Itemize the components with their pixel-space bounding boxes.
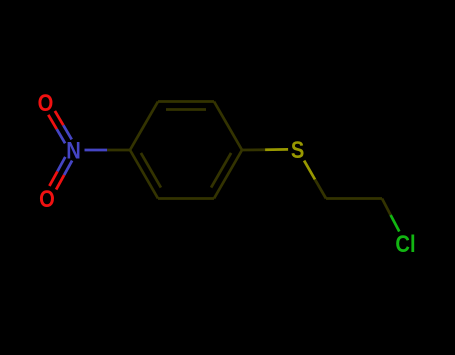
double bond N-O1 line1 (half A): [63, 125, 71, 139]
double bond N-O2 line2 (half A): [64, 161, 72, 176]
svg-text:S: S: [291, 136, 304, 163]
ring inner double line BL-L: [141, 153, 161, 188]
double bond N-O2 line1 (half A): [57, 157, 65, 172]
bond S-C1 (half B): [315, 180, 326, 199]
ring edge L-TL: [130, 102, 158, 151]
double bond N-O1 line2 (half A): [57, 129, 65, 143]
bond S-C1 (half A): [304, 161, 315, 180]
bond C2-Cl (half A): [382, 199, 391, 216]
ring inner double line R-BR: [211, 153, 231, 188]
ring edge BL-L: [130, 150, 158, 199]
bond C(ring)-S (half A): [242, 148, 265, 151]
double bond N-O2 line2 (half B): [56, 175, 64, 190]
ring inner double line TL-TR: [166, 108, 206, 111]
double bond N-O2 line1 (half B): [49, 171, 57, 186]
bond N-C(ring) (half A): [85, 149, 108, 152]
ring edge R-BR: [214, 150, 242, 199]
double bond N-O1 line2 (half B): [48, 115, 56, 129]
double bond N-O1 line1 (half B): [55, 111, 63, 125]
bond C2-Cl (half B): [391, 215, 400, 232]
svg-text:O: O: [39, 185, 55, 212]
bond N-C(ring) (half B): [107, 149, 130, 152]
svg-text:Cl: Cl: [395, 230, 415, 257]
svg-text:N: N: [66, 137, 81, 164]
ring edge TL-TR: [158, 100, 214, 103]
svg-text:O: O: [38, 89, 54, 116]
bond C1-C2: [326, 197, 382, 200]
ring edge TR-R: [214, 102, 242, 151]
bond C(ring)-S (half B): [265, 148, 288, 151]
ring edge BR-BL: [158, 197, 214, 200]
